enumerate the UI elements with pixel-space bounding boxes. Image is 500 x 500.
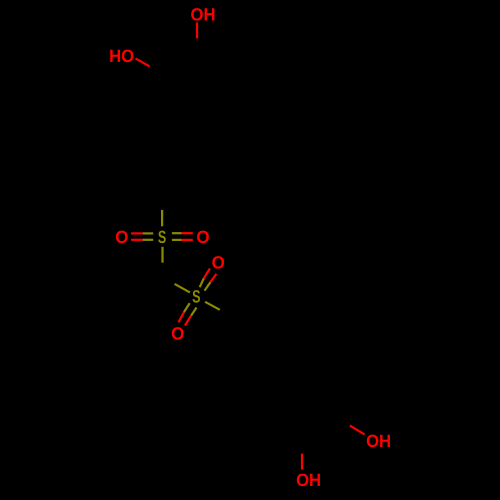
double bond S2=O lower left, line 2	[191, 308, 196, 316]
wire bond C1-O (red half, vertical below top OH)	[196, 22, 198, 38]
double bond S1=O right, line 2	[172, 239, 182, 241]
double bond S2=O upper right, line 1	[200, 278, 204, 287]
svg-text:O: O	[115, 227, 128, 247]
svg-text:OH: OH	[366, 431, 391, 451]
wire bond CH2-S2 (olive half, diagonal)	[175, 284, 190, 293]
wire bond C-S1 (olive half, vertical above S1)	[161, 210, 163, 226]
svg-text:O: O	[196, 227, 209, 247]
wire bond C-O (red half, vertical above bottom OH of ring 2)	[301, 454, 303, 470]
svg-text:OH: OH	[191, 4, 216, 24]
svg-text:O: O	[212, 253, 225, 273]
svg-text:S: S	[192, 287, 200, 307]
svg-text:S: S	[158, 227, 166, 247]
wire bond C-O (red half, diagonal to right OH of ring 2)	[350, 426, 365, 435]
double bond S2=O lower left, line 1	[184, 303, 190, 312]
svg-text:HO: HO	[109, 46, 134, 66]
double bond S2=O upper right, line 2	[205, 282, 211, 290]
double bond S1=O left, line 1	[131, 232, 143, 234]
wire bond S2-C (olive half, diagonal to ring 2)	[205, 302, 220, 310]
svg-text:O: O	[171, 323, 184, 343]
wire bond S1-CH2 (olive half, vertical below S1)	[161, 247, 163, 263]
double bond S1=O right, line 1	[172, 232, 182, 234]
svg-text:OH: OH	[296, 470, 321, 490]
double bond S1=O left, line 2	[131, 239, 143, 241]
wire bond C2-O (red half, diagonal from HO)	[136, 58, 150, 66]
